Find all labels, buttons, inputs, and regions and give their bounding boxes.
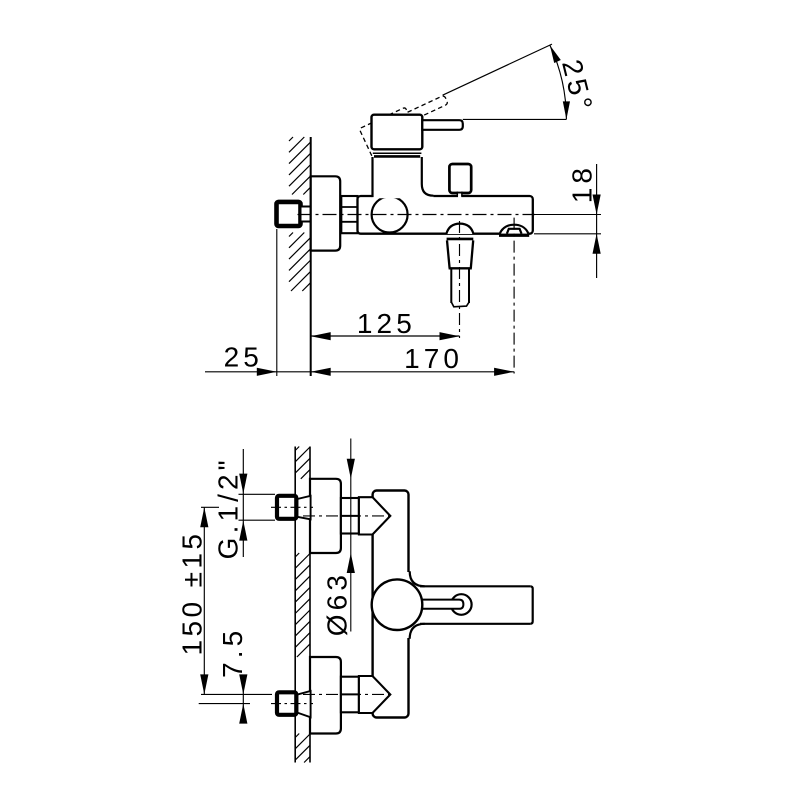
aerator dome bbox=[500, 225, 529, 234]
body (plan) bbox=[373, 491, 409, 718]
union nut (wall connection) bbox=[277, 202, 301, 226]
threaded nipple bbox=[341, 196, 357, 233]
outlet taper bbox=[447, 240, 473, 268]
25 deg dimension lines bbox=[443, 44, 567, 119]
lever fillets bbox=[410, 571, 425, 586]
knob neck bbox=[458, 194, 461, 199]
aerator centerline bbox=[513, 218, 515, 374]
wall strip hatching band 2 bbox=[295, 553, 310, 657]
wall hatching (upper band) bbox=[289, 137, 311, 195]
handle block bbox=[372, 115, 423, 150]
lever bbox=[422, 120, 463, 130]
bottom inlet: escutcheon bbox=[310, 657, 341, 734]
svg-text:7.5: 7.5 bbox=[217, 627, 248, 678]
bottom inlet: nipple bbox=[341, 677, 359, 713]
bottom inlet centerline (inlet axis) bbox=[303, 693, 394, 695]
7.5 dimension bbox=[201, 693, 272, 695]
svg-text:150 ±15: 150 ±15 bbox=[177, 531, 208, 656]
outlet joint bar bbox=[447, 238, 474, 241]
150 +-15 dimension bbox=[201, 506, 219, 508]
nut pipe to wall bbox=[302, 206, 312, 223]
top inlet nut axis centerline bbox=[271, 506, 313, 508]
svg-text:170: 170 bbox=[404, 343, 463, 374]
diverter knob bbox=[449, 164, 471, 193]
top inlet: pipe bbox=[297, 496, 310, 520]
dashed raised-handle outline (rotated 25deg) bbox=[359, 90, 456, 160]
cartridge circle bbox=[372, 197, 408, 233]
handshower outlet dome bbox=[446, 224, 473, 234]
dia63 extension line + arrows bbox=[350, 439, 352, 632]
top inlet: union nut bbox=[277, 496, 296, 519]
nut extension line bbox=[276, 229, 278, 376]
handshower centerline bbox=[459, 221, 461, 338]
faucet body bbox=[358, 196, 533, 234]
top inlet centerline (inlet axis) bbox=[303, 515, 394, 517]
svg-text:Ø63: Ø63 bbox=[321, 571, 352, 636]
wall escutcheon bbox=[311, 176, 341, 250]
125 dimension bbox=[311, 335, 460, 337]
lever root mask bbox=[407, 572, 412, 638]
top inlet: escutcheon bbox=[310, 479, 341, 553]
lever pivot circle bbox=[451, 594, 472, 615]
25 deg arc arrowheads bbox=[550, 45, 561, 63]
wall strip lines bbox=[294, 447, 296, 763]
wall strip hatching band 3 bbox=[295, 734, 310, 763]
lever rod bbox=[421, 600, 463, 609]
riser column bbox=[373, 157, 434, 198]
joint ring bbox=[373, 152, 422, 154]
bottom inlet nut axis centerline bbox=[271, 703, 313, 705]
hose connector bbox=[450, 269, 452, 303]
wall strip hatching band 1 bbox=[295, 447, 310, 479]
cartridge dome circle (plan) bbox=[372, 579, 423, 630]
18 dim extension lines bbox=[534, 214, 601, 216]
top inlet: cone bbox=[359, 497, 390, 534]
svg-text:125: 125 bbox=[357, 308, 416, 339]
top inlet: nipple bbox=[341, 498, 359, 534]
bottom inlet: cone bbox=[359, 676, 390, 713]
svg-text:18: 18 bbox=[567, 164, 598, 203]
bottom inlet: union nut bbox=[277, 692, 296, 715]
aerator inner bbox=[507, 229, 522, 234]
18 dim line bbox=[596, 164, 598, 278]
wall hatching (lower band) bbox=[289, 233, 311, 292]
170 / 25 dimension chain bbox=[205, 371, 514, 373]
bottom inlet: pipe bbox=[297, 691, 310, 717]
main centerline bbox=[298, 214, 536, 216]
G 1/2 dimension bbox=[239, 493, 276, 495]
wall line bbox=[310, 137, 312, 376]
svg-text:25: 25 bbox=[224, 341, 263, 372]
lever (plan) bbox=[420, 586, 533, 624]
